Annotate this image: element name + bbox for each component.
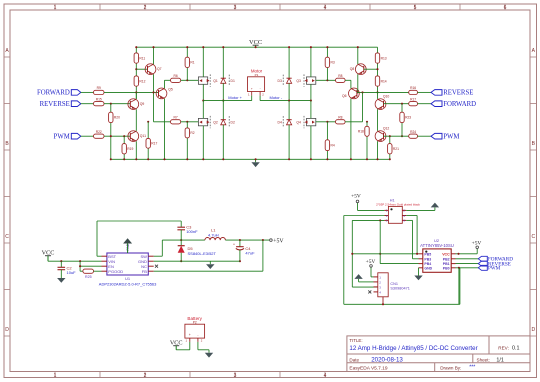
svg-text:4: 4 — [324, 5, 327, 11]
svg-text:PWM: PWM — [488, 266, 501, 272]
svg-text:Drawn By:: Drawn By: — [440, 366, 461, 371]
svg-text:Q4: Q4 — [296, 121, 301, 125]
svg-text:REV:: REV: — [498, 345, 509, 350]
svg-text:2: 2 — [144, 5, 147, 11]
svg-text:+: + — [189, 333, 191, 337]
svg-text:D: D — [5, 327, 9, 333]
svg-text:REVERSE: REVERSE — [40, 101, 70, 108]
svg-text:Q10: Q10 — [383, 95, 390, 99]
svg-text:47uF: 47uF — [245, 251, 255, 256]
svg-text:Q3: Q3 — [296, 79, 301, 83]
svg-text:2*03P 2.54mm Gold plated black: 2*03P 2.54mm Gold plated black — [376, 202, 420, 206]
svg-text:Q11: Q11 — [140, 134, 146, 138]
svg-text:1: 1 — [54, 373, 57, 379]
svg-text:+5V: +5V — [366, 259, 376, 265]
svg-text:+: + — [233, 242, 235, 246]
svg-text:Sheet:: Sheet: — [477, 357, 490, 362]
svg-text:1/1: 1/1 — [496, 357, 504, 363]
svg-text:R8: R8 — [338, 74, 342, 78]
svg-text:ADP2302ARDZ-5.0-R7_C75563: ADP2302ARDZ-5.0-R7_C75563 — [99, 282, 157, 287]
svg-text:A: A — [532, 48, 536, 54]
svg-text:R3: R3 — [331, 61, 335, 65]
svg-text:R1: R1 — [190, 61, 194, 65]
svg-text:TITLE:: TITLE: — [349, 338, 362, 343]
svg-text:D2: D2 — [231, 121, 235, 125]
svg-text:C: C — [5, 234, 9, 240]
svg-text:100nF: 100nF — [186, 229, 198, 234]
svg-text:Motor -: Motor - — [270, 95, 283, 100]
svg-text:Q9: Q9 — [140, 102, 145, 106]
svg-text:PB3: PB3 — [424, 257, 431, 261]
svg-text:PB5: PB5 — [424, 252, 431, 256]
svg-text:2020-08-13: 2020-08-13 — [371, 356, 403, 363]
svg-text:R19: R19 — [127, 147, 133, 151]
svg-text:+5V: +5V — [351, 194, 361, 200]
svg-text:PB2: PB2 — [443, 257, 450, 261]
svg-text:PGOOD: PGOOD — [108, 269, 123, 274]
svg-text:4: 4 — [324, 373, 327, 379]
svg-text:2: 2 — [144, 373, 147, 379]
svg-text:VCC: VCC — [442, 252, 450, 256]
svg-text:+: + — [251, 87, 253, 91]
svg-text:Q12: Q12 — [383, 127, 390, 131]
svg-text:FORWARD: FORWARD — [37, 90, 70, 97]
svg-text:R22: R22 — [96, 130, 102, 134]
svg-text:0.1: 0.1 — [512, 345, 520, 351]
svg-text:Motor +: Motor + — [228, 95, 242, 100]
svg-text:-: - — [260, 87, 261, 91]
svg-text:EasyEDA V5.7.19: EasyEDA V5.7.19 — [349, 365, 387, 371]
svg-text:R17: R17 — [151, 142, 157, 146]
svg-text:R9: R9 — [97, 86, 101, 90]
svg-text:U1: U1 — [125, 276, 131, 281]
svg-text:2: 2 — [262, 92, 264, 96]
svg-text:1: 1 — [54, 5, 57, 11]
svg-text:FORWARD: FORWARD — [443, 101, 476, 108]
svg-text:PWM: PWM — [54, 134, 70, 141]
svg-text:R25: R25 — [85, 275, 92, 279]
svg-text:C: C — [531, 234, 535, 240]
svg-text:2: 2 — [201, 339, 203, 343]
svg-text:PWM: PWM — [443, 134, 459, 141]
svg-text:12 Amp H-Bridge / Attiny85 / D: 12 Amp H-Bridge / Attiny85 / DC-DC Conve… — [349, 345, 477, 352]
svg-text:6: 6 — [504, 5, 507, 11]
svg-text:R14: R14 — [381, 79, 387, 83]
svg-text:R18: R18 — [358, 130, 364, 134]
svg-text:1: 1 — [185, 339, 187, 343]
svg-text:R11: R11 — [139, 56, 145, 60]
svg-text:GND: GND — [424, 266, 432, 270]
svg-text:Q7: Q7 — [157, 67, 162, 71]
svg-text:Q1: Q1 — [213, 79, 218, 83]
svg-text:D4: D4 — [278, 121, 282, 125]
svg-text:R4: R4 — [331, 144, 335, 148]
svg-text:R20: R20 — [114, 116, 120, 120]
svg-text:A: A — [5, 48, 9, 54]
svg-text:3: 3 — [234, 5, 237, 11]
svg-text:R15: R15 — [96, 98, 102, 102]
svg-text:D: D — [531, 327, 535, 333]
svg-text:Q6: Q6 — [342, 94, 347, 98]
svg-text:3: 3 — [234, 373, 237, 379]
svg-text:4.7uH: 4.7uH — [208, 232, 219, 237]
svg-text:+5V: +5V — [472, 240, 482, 246]
svg-text:Date: Date — [349, 357, 359, 362]
svg-text:D3: D3 — [278, 79, 282, 83]
svg-text:R12: R12 — [139, 79, 145, 83]
svg-text:B: B — [5, 141, 9, 147]
svg-text:R21: R21 — [393, 147, 399, 151]
svg-text:R23: R23 — [405, 116, 411, 120]
svg-text:R13: R13 — [381, 56, 387, 60]
svg-text:REVERSE: REVERSE — [443, 90, 473, 97]
svg-text:5: 5 — [414, 5, 417, 11]
svg-text:Q5: Q5 — [168, 88, 173, 92]
svg-text:CN1: CN1 — [390, 282, 398, 286]
svg-text:10uF: 10uF — [67, 270, 77, 275]
svg-text:R7: R7 — [173, 116, 177, 120]
svg-text:Q8: Q8 — [350, 67, 355, 71]
svg-text:R2: R2 — [190, 131, 194, 135]
svg-text:SS840L-E3/52T: SS840L-E3/52T — [188, 251, 217, 256]
svg-text:B: B — [532, 141, 536, 147]
svg-text:Q2: Q2 — [213, 121, 218, 125]
svg-text:R8: R8 — [338, 116, 342, 120]
svg-text:PB0: PB0 — [443, 266, 450, 270]
svg-text:D1: D1 — [231, 79, 235, 83]
svg-text:***: *** — [469, 365, 475, 371]
svg-text:FB: FB — [142, 269, 147, 274]
svg-text:S30980471: S30980471 — [390, 286, 409, 290]
svg-text:ATTINY85V-10SU: ATTINY85V-10SU — [420, 243, 454, 248]
svg-text:R6: R6 — [173, 74, 177, 78]
svg-text:R17: R17 — [410, 98, 416, 102]
svg-text:R24: R24 — [410, 130, 416, 134]
svg-text:1: 1 — [248, 92, 250, 96]
svg-text:R16: R16 — [410, 86, 416, 90]
svg-text:-: - — [197, 333, 198, 337]
svg-text:+5V: +5V — [273, 239, 284, 245]
